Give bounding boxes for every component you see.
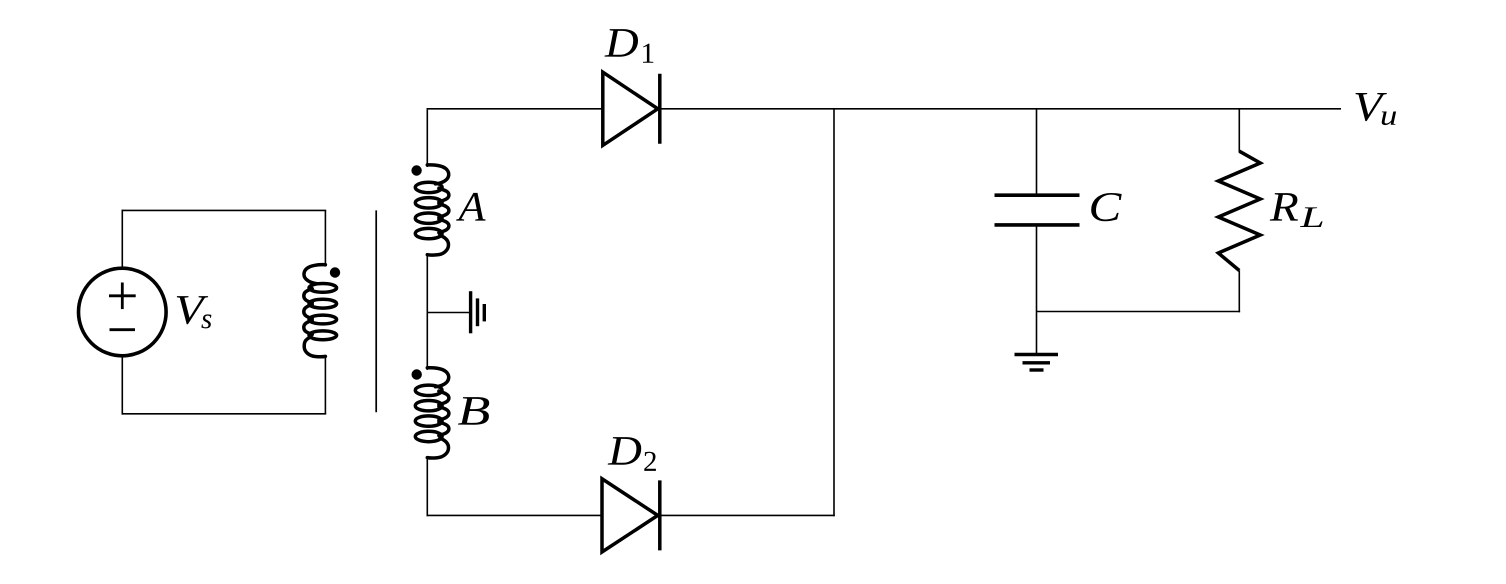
wire D2 output riser bbox=[833, 108, 835, 516]
label Vu bbox=[1356, 93, 1387, 121]
transformer secondary winding B bbox=[415, 368, 449, 458]
wire bottom rail left bbox=[427, 514, 604, 516]
label B bbox=[458, 397, 489, 425]
label D2 bbox=[608, 437, 642, 465]
wire bottom rail right bbox=[660, 514, 835, 516]
primary polarity dot bbox=[330, 267, 340, 277]
wire left-top (source to primary) bbox=[122, 210, 327, 269]
center tap ground (tlground) bbox=[471, 291, 485, 333]
ground under capacitor bbox=[1015, 355, 1059, 371]
wire capacitor top bbox=[1036, 108, 1038, 195]
wire bottom link (C to RL) bbox=[1037, 311, 1241, 313]
transformer secondary winding A bbox=[415, 165, 449, 255]
diode D1 bbox=[603, 72, 660, 145]
resistor RL bbox=[1218, 151, 1260, 270]
transformer primary winding bbox=[304, 265, 337, 357]
wire center (A to B) bbox=[426, 254, 428, 370]
transformer core bbox=[375, 210, 377, 412]
winding A polarity dot bbox=[411, 165, 421, 175]
voltage source Vs bbox=[79, 268, 167, 356]
wire top rail left bbox=[427, 108, 604, 110]
wire secondary bottom (to D2) bbox=[426, 457, 428, 516]
wire RL top bbox=[1238, 108, 1240, 152]
label C bbox=[1091, 193, 1122, 221]
label D1 bbox=[605, 29, 639, 57]
wire top rail right bbox=[660, 108, 1341, 110]
center tap wire bbox=[427, 312, 469, 314]
label A bbox=[456, 193, 486, 221]
label Vs bbox=[177, 296, 208, 324]
wire secondary top (to D1) bbox=[426, 110, 428, 167]
label RL bbox=[1270, 193, 1298, 221]
winding B polarity dot bbox=[412, 369, 422, 379]
capacitor C bbox=[995, 195, 1080, 225]
diode D2 bbox=[602, 479, 660, 552]
wire RL bottom bbox=[1238, 271, 1240, 313]
wire capacitor bottom bbox=[1036, 225, 1038, 353]
wire left-bottom (primary to source) bbox=[122, 356, 327, 415]
